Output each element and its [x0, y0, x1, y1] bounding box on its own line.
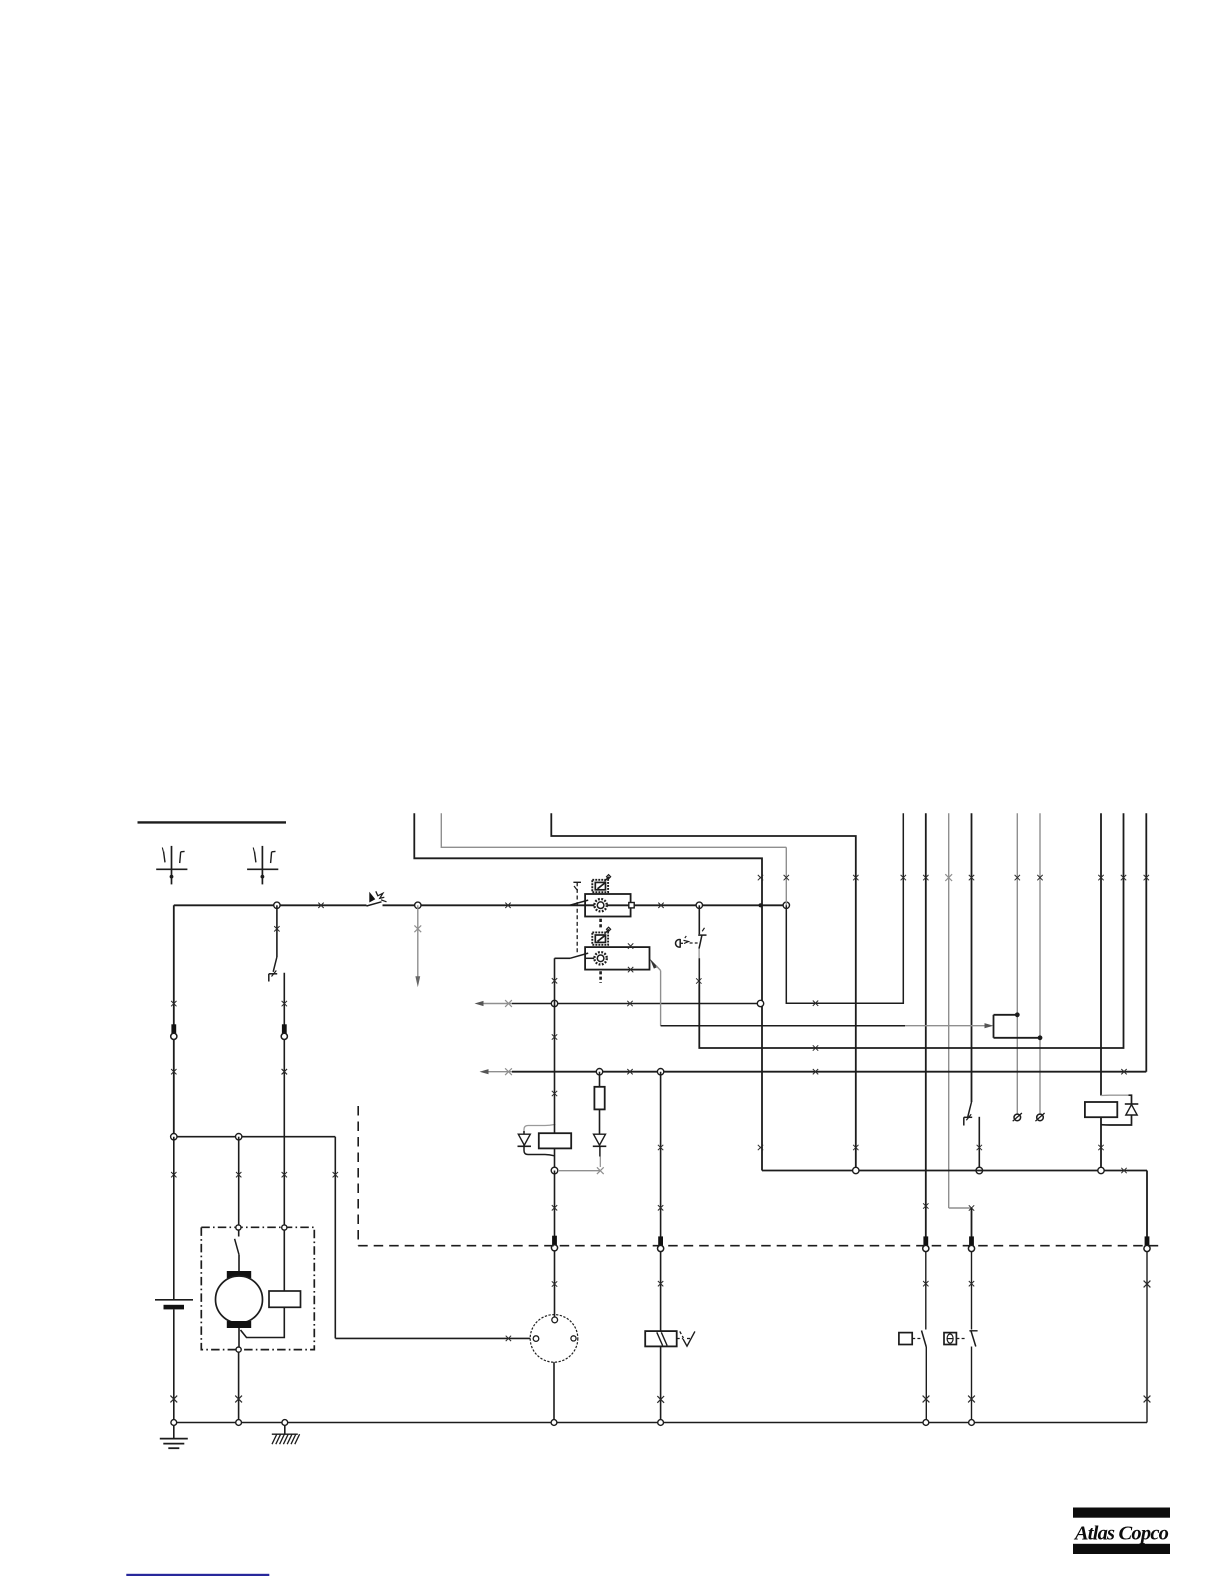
svg-text:Atlas Copco: Atlas Copco [1073, 1522, 1169, 1544]
